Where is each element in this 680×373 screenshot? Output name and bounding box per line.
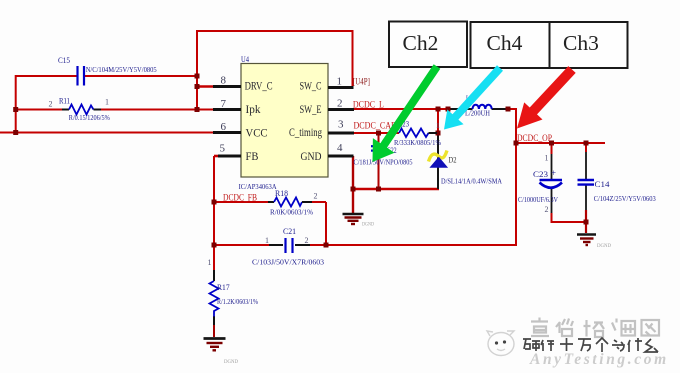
pin 7 stub (213, 108, 241, 111)
node junction (15.7,109.5) (13, 107, 18, 112)
svg-text:Ch4: Ch4 (487, 31, 523, 55)
ground under pin4 (343, 214, 364, 224)
node junction (516,143) (514, 141, 519, 146)
wire far-left vertical (15, 75, 17, 133)
wire R18 right to corner (311, 201, 326, 203)
svg-text:IC/AP34063A: IC/AP34063A (239, 182, 278, 191)
svg-text:GND: GND (301, 151, 322, 163)
IC U4 body (241, 64, 328, 178)
wire C14 to ground red (585, 210, 587, 233)
node junction (15.7,132.5) (13, 130, 18, 135)
annotation box Ch2 (389, 22, 467, 68)
node junction (586,222) (584, 220, 589, 225)
pin 6 stub (213, 131, 241, 134)
ground under C14 (577, 235, 596, 246)
svg-text:SW_E: SW_E (300, 104, 322, 116)
svg-text:C/181J/50V/NPO/0805: C/181J/50V/NPO/0805 (354, 159, 413, 167)
svg-text:SW_C: SW_C (300, 81, 322, 93)
node junction (378.5,189) (376, 187, 381, 192)
wire C22 bottom lead (378, 151, 380, 190)
arrow cyan Ch4 probe (444, 65, 503, 129)
svg-text:DCDC_FB: DCDC_FB (223, 194, 257, 204)
node junction (353,189) (351, 187, 356, 192)
wire output vertical x516 (515, 109, 517, 246)
watermark dark CJK 硬件十万个为什么 (faked strokes) (523, 338, 658, 352)
svg-text:8: 8 (221, 75, 227, 87)
svg-text:R/333K/0805/1%: R/333K/0805/1% (394, 139, 441, 147)
wire FB vertical (213, 156, 215, 246)
svg-text:R17: R17 (217, 283, 230, 292)
ground under R17 (204, 339, 226, 351)
wire C21 left lead red (214, 244, 269, 246)
node junction (438,109) (436, 107, 441, 112)
svg-text:C23: C23 (533, 170, 548, 179)
svg-text:2: 2 (314, 192, 318, 201)
wire C21 right long rail to x516 (309, 244, 517, 246)
svg-text:6: 6 (221, 121, 227, 133)
svg-text:U4: U4 (241, 55, 249, 64)
svg-text:2: 2 (337, 97, 343, 109)
wire C22 vertical (378, 133, 380, 146)
node junction (197,109.5) (195, 107, 200, 112)
wire inductor to corner red (507, 108, 517, 110)
wire C23 top lead (551, 143, 553, 179)
wire C15 right lead (85, 75, 199, 77)
svg-text:1: 1 (545, 154, 549, 163)
pin 5 stub (218, 155, 241, 158)
svg-text:D2: D2 (449, 155, 457, 165)
svg-text:C14: C14 (595, 180, 610, 189)
node junction (551.5,143) (549, 141, 554, 146)
wire inductor right lead black (492, 108, 509, 110)
wire left vertical x197 (196, 30, 198, 111)
wire R18 corner vertical (325, 202, 327, 246)
wire R11 right red to pin7 (100, 109, 214, 111)
svg-text:[U4P]: [U4P] (353, 78, 370, 88)
watermark logo sketch (487, 331, 514, 356)
wire DCDC_FB to R18 (214, 201, 272, 203)
wire R11 left lead red (16, 109, 62, 111)
wire C23 top red part (551, 143, 553, 154)
svg-text:4: 4 (337, 142, 343, 154)
svg-text:2: 2 (305, 236, 309, 245)
annotation box Ch3 (550, 22, 628, 68)
diode D2 (429, 151, 448, 168)
svg-text:+: + (551, 168, 556, 178)
wire FB stub red (214, 155, 222, 158)
node junction (586,143) (584, 141, 589, 146)
pin 2 stub (328, 108, 354, 111)
wire C23 bottom lead (551, 189, 553, 222)
capacitor C21 (269, 238, 310, 253)
node junction (326,245) (324, 243, 329, 248)
wire DCDC_L red (353, 108, 449, 110)
node junction (197,86.5) (195, 84, 200, 89)
svg-text:D/SL14/1A/0.4W/SMA: D/SL14/1A/0.4W/SMA (441, 178, 502, 186)
resistor R23 (399, 129, 437, 138)
wire bottom mid horizontal (353, 188, 439, 190)
node junction (214,202) (212, 200, 217, 205)
svg-text:R/0K/0603/1%: R/0K/0603/1% (270, 209, 313, 217)
svg-text:DGND: DGND (597, 243, 611, 249)
svg-text:1: 1 (436, 121, 440, 130)
svg-text:DGND: DGND (362, 222, 374, 228)
svg-text:Ch2: Ch2 (403, 31, 439, 55)
wire R23 junction vertical red (437, 109, 439, 134)
svg-text:1: 1 (105, 98, 109, 107)
capacitor C22 (371, 146, 386, 150)
svg-text:5: 5 (220, 143, 226, 155)
wire C14 top lead (585, 143, 587, 179)
wire C15 left lead (16, 75, 77, 77)
pin 3 stub (328, 132, 354, 135)
node junction (378.5,133) (376, 131, 381, 136)
svg-text:C21: C21 (283, 227, 296, 236)
wire DCDC_OP rail (516, 142, 605, 144)
svg-text:2: 2 (545, 205, 549, 214)
pin 1 stub (328, 86, 354, 89)
capacitor C23 polarized (540, 180, 563, 188)
annotation box Ch4 (471, 22, 550, 68)
svg-text:FB: FB (246, 151, 259, 163)
wire top loop horizontal (197, 30, 353, 32)
svg-text:C/1000UF/6.3V: C/1000UF/6.3V (518, 196, 558, 204)
svg-text:C/104Z/25V/Y5V/0603: C/104Z/25V/Y5V/0603 (594, 195, 656, 203)
svg-text:R/0.15/1206/5%: R/0.15/1206/5% (69, 114, 110, 122)
svg-text:1: 1 (265, 236, 269, 245)
arrow red Ch3 probe (517, 66, 576, 128)
svg-text:3: 3 (338, 119, 344, 131)
resistor R18 (268, 198, 312, 207)
capacitor C15 (78, 66, 85, 86)
wire C14 top red part (585, 143, 587, 152)
wire top loop right vertical to pin1 (352, 30, 354, 88)
wire C23 bottom red part (551, 213, 553, 223)
wire D2 vertical black (437, 133, 439, 189)
svg-text:AnyTesting.com: AnyTesting.com (529, 351, 669, 368)
svg-text:DRV_C: DRV_C (245, 81, 273, 93)
wire pin3 to R23 (353, 132, 399, 134)
pin 4 stub (328, 155, 354, 158)
wire pin4 gnd vertical (352, 156, 354, 213)
inductor L5 (473, 105, 492, 109)
svg-text:1: 1 (208, 258, 212, 267)
node junction (508,109) (506, 107, 511, 112)
svg-text:Ipk: Ipk (246, 104, 261, 116)
svg-text:Ch3: Ch3 (563, 31, 599, 55)
node junction (197,76) (195, 74, 200, 79)
watermark gray CJK 嘉峪检测网 (faked strokes) (531, 318, 659, 338)
wire bottom right horizontal (552, 221, 587, 223)
svg-text:R/1.2K/0603/1%: R/1.2K/0603/1% (217, 298, 258, 306)
pin 8 stub (213, 85, 241, 88)
svg-text:C_timing: C_timing (289, 127, 322, 139)
capacitor C14 (578, 180, 595, 185)
wire C14 bottom lead (585, 185, 587, 215)
node junction (448,109) (446, 107, 451, 112)
svg-text:R18: R18 (275, 189, 288, 198)
wire pin8 red stub (197, 85, 214, 88)
resistor R17 (210, 270, 219, 325)
svg-text:C/103J/50V/X7R/0603: C/103J/50V/X7R/0603 (252, 259, 325, 267)
svg-text:DCDC_OP: DCDC_OP (517, 134, 552, 144)
svg-text:N/C/104M/25V/Y5V/0805: N/C/104M/25V/Y5V/0805 (86, 66, 157, 74)
svg-text:L/200UH: L/200UH (465, 110, 490, 118)
svg-text:1: 1 (337, 76, 343, 88)
node junction (438,133) (436, 131, 441, 136)
wire R17 top lead (213, 245, 215, 281)
svg-text:C15: C15 (58, 56, 70, 65)
svg-text:2: 2 (49, 100, 53, 109)
svg-text:DGND: DGND (224, 359, 238, 365)
svg-text:DCDC_L: DCDC_L (353, 101, 384, 111)
node junction (214,245) (212, 243, 217, 248)
svg-text:7: 7 (221, 98, 227, 110)
svg-text:DCDC_CAP: DCDC_CAP (354, 122, 396, 132)
resistor R11 (62, 105, 101, 115)
wire VCC rail (0, 132, 214, 134)
wire R17 bottom lead (213, 316, 215, 337)
svg-text:VCC: VCC (246, 128, 268, 140)
arrow green Ch2 probe (373, 64, 441, 162)
svg-text:R11: R11 (59, 96, 70, 105)
wire inductor left lead black (448, 108, 473, 110)
